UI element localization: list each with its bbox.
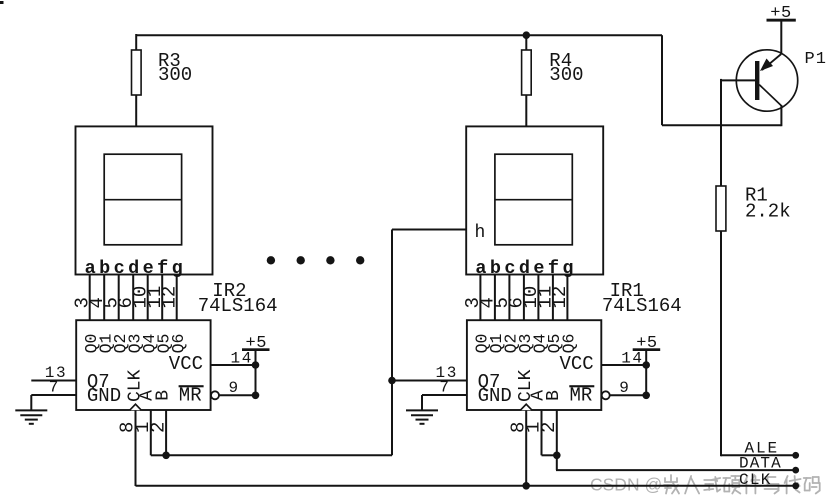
svg-text:MR: MR xyxy=(570,384,593,406)
svg-text:300: 300 xyxy=(158,64,192,86)
svg-text:9: 9 xyxy=(619,379,629,397)
svg-text:2: 2 xyxy=(538,422,560,433)
svg-text:P1: P1 xyxy=(805,50,827,69)
svg-text:14: 14 xyxy=(621,350,643,368)
svg-text:2.2k: 2.2k xyxy=(745,201,791,223)
svg-text:h: h xyxy=(475,223,486,243)
svg-text:300: 300 xyxy=(549,64,583,86)
svg-text:B: B xyxy=(544,390,564,401)
svg-text:B: B xyxy=(154,390,174,401)
svg-text:VCC: VCC xyxy=(560,353,594,375)
svg-text:MR: MR xyxy=(179,384,202,406)
svg-text:74LS164: 74LS164 xyxy=(602,295,682,317)
svg-text:14: 14 xyxy=(231,350,253,368)
svg-text:74LS164: 74LS164 xyxy=(198,295,278,317)
svg-text:Q6: Q6 xyxy=(169,334,188,354)
svg-text:12: 12 xyxy=(158,286,180,309)
svg-text:2: 2 xyxy=(147,422,169,433)
svg-text:GND: GND xyxy=(87,385,121,407)
svg-text:9: 9 xyxy=(229,379,239,397)
svg-text:VCC: VCC xyxy=(169,353,203,375)
svg-text:CSDN @: CSDN @ xyxy=(590,475,662,495)
svg-text:DATA: DATA xyxy=(739,455,782,473)
svg-text:12: 12 xyxy=(549,286,571,309)
svg-text:CLK: CLK xyxy=(739,471,772,489)
svg-text:GND: GND xyxy=(478,385,512,407)
svg-text:7: 7 xyxy=(49,378,59,396)
svg-text:Q6: Q6 xyxy=(560,334,579,354)
